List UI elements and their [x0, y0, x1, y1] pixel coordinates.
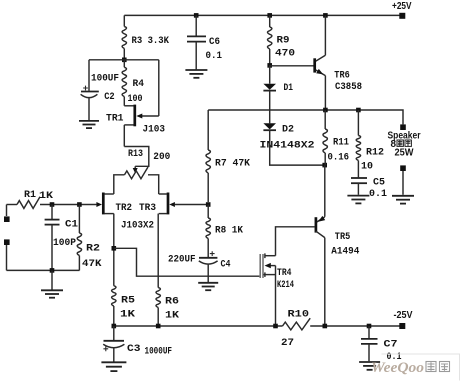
+25V terminal: [399, 13, 405, 19]
watermark box: [382, 354, 460, 381]
watermark CJK glyphs: [426, 362, 450, 372]
diode D1: [269, 65, 271, 83]
resistor R3: [123, 15, 125, 59]
node R7/R8/TR3-gate: [206, 202, 211, 207]
wire box top: [89, 59, 159, 61]
resistor R10 27: [283, 318, 311, 330]
svg-text:R8 1K: R8 1K: [215, 224, 244, 236]
node R1/R2: [77, 202, 82, 207]
wire TR4 drain to TR5 base: [276, 227, 315, 256]
svg-text:0.16: 0.16: [328, 152, 350, 164]
svg-text:A1494: A1494: [331, 246, 359, 258]
svg-text:1K: 1K: [165, 309, 180, 321]
svg-text:25W: 25W: [395, 148, 415, 159]
node output/R12: [356, 108, 361, 113]
svg-text:47K: 47K: [82, 258, 102, 270]
svg-text:R6: R6: [165, 295, 179, 307]
ground under speaker: [402, 171, 404, 195]
svg-text:1K: 1K: [120, 308, 136, 320]
transistor TR1 J103: [133, 105, 136, 127]
svg-text:R4: R4: [133, 78, 145, 90]
svg-text:+25V: +25V: [392, 1, 412, 12]
node TR2 source / feedback: [112, 246, 117, 251]
svg-text:TR6: TR6: [334, 70, 350, 82]
svg-text:C4: C4: [221, 258, 231, 270]
node top-rail/R9: [267, 13, 272, 18]
speaker terminal upper: [400, 124, 406, 130]
resistor R7 47K: [207, 110, 209, 202]
svg-text:IN4148X2: IN4148X2: [260, 139, 315, 151]
svg-text:D2: D2: [282, 124, 294, 136]
diode D2: [263, 123, 276, 129]
svg-text:10: 10: [361, 161, 373, 173]
ground input: [51, 270, 53, 289]
transistor TR5 A1494: [316, 165, 325, 222]
svg-text:C6: C6: [209, 36, 220, 48]
wire D2 cathode to bias node: [270, 130, 325, 165]
transistor TR2 (J103X2 half): [102, 193, 105, 215]
node R1/C1: [50, 202, 55, 207]
svg-text:K214: K214: [277, 279, 294, 291]
capacitor C6: [195, 15, 197, 35]
svg-text:TR1: TR1: [106, 112, 124, 124]
node R9/D1/TR6-base: [267, 63, 272, 68]
svg-text:R13: R13: [128, 148, 143, 160]
node R3/R4/box: [122, 58, 127, 63]
svg-text:R9: R9: [277, 35, 290, 47]
node rail/R6: [156, 324, 161, 329]
wire +25V top rail: [124, 14, 400, 16]
capacitor C2: [88, 60, 90, 91]
wire TR1 source to R13 wiper: [124, 147, 149, 167]
transistor TR4 K214: [265, 255, 276, 257]
capacitor C1 100P: [51, 205, 53, 220]
svg-text:R11: R11: [333, 137, 349, 149]
svg-text:C3: C3: [127, 343, 141, 355]
svg-text:C2: C2: [104, 91, 115, 103]
wire TR6 base: [270, 65, 314, 67]
resistor R12 10: [357, 110, 359, 177]
svg-text:TR5: TR5: [335, 231, 351, 243]
svg-text:C3858: C3858: [335, 81, 362, 93]
-25V terminal: [399, 323, 405, 329]
transistor TR3 (J103X2 half): [167, 193, 170, 215]
wire feedback to TR4 gate: [114, 248, 260, 276]
input terminal lower: [4, 239, 10, 245]
capacitor C3 1000UF: [113, 326, 115, 340]
svg-text:C5: C5: [373, 177, 385, 189]
wire TR3 source column: [157, 214, 159, 288]
svg-text:100UF: 100UF: [91, 72, 119, 84]
node top-rail/TR6-collector: [323, 13, 328, 18]
resistor R13 200 trimmer: [125, 167, 149, 179]
input terminal upper: [6, 205, 8, 217]
svg-text:27: 27: [281, 337, 294, 349]
node C1 bottom: [50, 268, 55, 273]
svg-text:J103: J103: [143, 123, 166, 135]
svg-text:100P: 100P: [53, 237, 76, 249]
svg-text:470: 470: [275, 47, 295, 59]
wire TR3 gate to R7/R8 node: [175, 204, 207, 206]
capacitor C4 220UF: [199, 257, 217, 259]
node rail/TR4-source: [273, 324, 278, 329]
R13 wiper arrow: [134, 166, 136, 169]
resistor R8 1K: [207, 205, 209, 258]
svg-text:R2: R2: [86, 242, 100, 254]
wire TR1 gate feedback column: [158, 60, 160, 116]
svg-text:C7: C7: [384, 339, 398, 351]
svg-text:0.1: 0.1: [369, 188, 387, 200]
ground under C6: [185, 69, 207, 71]
wire R13 left lead to TR2 drain: [114, 175, 125, 194]
resistor R9 470: [269, 15, 271, 65]
svg-text:R7 47K: R7 47K: [215, 158, 251, 170]
wire -25V bottom rail right: [310, 325, 400, 327]
svg-text:R5: R5: [121, 294, 135, 306]
wire D1 to D2: [269, 91, 271, 124]
resistor R2 47K: [78, 205, 80, 271]
svg-text:C1: C1: [65, 218, 78, 230]
ground under C5: [347, 195, 369, 197]
svg-text:-25V: -25V: [394, 310, 413, 321]
svg-text:200: 200: [153, 151, 170, 163]
resistor R6 1K: [156, 288, 160, 308]
svg-text:TR4: TR4: [277, 267, 292, 279]
capacitor C5 0.1: [351, 177, 367, 179]
wire R13 right lead to TR3 drain: [148, 175, 159, 194]
svg-text:100: 100: [128, 93, 143, 105]
wire output node run: [208, 110, 403, 124]
wire input ground run: [7, 269, 80, 271]
svg-text:220UF: 220UF: [168, 253, 196, 265]
node top-rail/C6: [194, 13, 199, 18]
wire TR2 source column: [113, 214, 115, 286]
capacitor C7 0.1: [368, 326, 370, 338]
resistor R4: [123, 60, 125, 106]
svg-text:R12: R12: [366, 147, 384, 159]
resistor R11 0.16: [324, 110, 326, 165]
transistor TR6 C3858: [313, 58, 316, 72]
node rail/TR5-collector: [323, 324, 328, 329]
ground under C4: [198, 282, 218, 284]
speaker terminal lower: [400, 165, 406, 171]
svg-text:R1: R1: [24, 189, 36, 201]
svg-text:1K: 1K: [39, 190, 54, 202]
svg-text:WeeQoo: WeeQoo: [371, 360, 424, 376]
svg-text:R10: R10: [288, 309, 310, 321]
resistor R1 1K: [7, 204, 18, 206]
svg-text:1000UF: 1000UF: [145, 346, 173, 358]
node rail/C7: [367, 324, 372, 329]
node TR6-emitter/R11/output: [323, 108, 328, 113]
svg-text:TR2: TR2: [116, 202, 133, 214]
svg-text:J103X2: J103X2: [121, 219, 154, 231]
svg-text:TR3: TR3: [139, 202, 156, 214]
ground under C3: [101, 361, 126, 363]
ground under C2: [79, 120, 99, 122]
node D2/R11/TR5-emitter: [322, 163, 327, 168]
resistor R5 1K: [112, 286, 116, 306]
svg-text:R3 3.3K: R3 3.3K: [132, 35, 170, 47]
svg-text:D1: D1: [284, 82, 294, 94]
svg-text:0.1: 0.1: [206, 50, 223, 62]
node rail/R5/C3: [112, 324, 117, 329]
wire -25V bottom rail left: [114, 325, 283, 327]
ground under C7: [359, 361, 380, 363]
